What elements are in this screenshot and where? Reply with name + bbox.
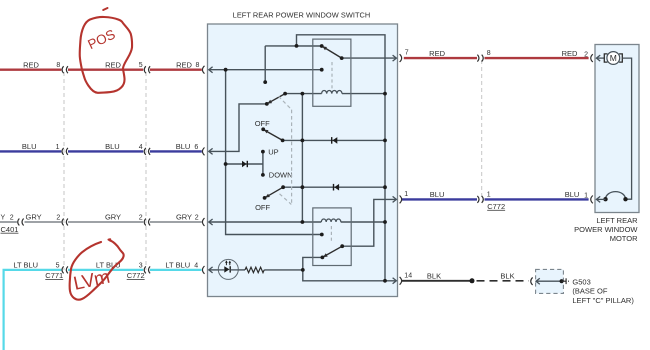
annotation LVM circle: [70, 240, 124, 299]
motor brush dots: [603, 197, 607, 201]
svg-text:4: 4: [194, 262, 198, 269]
relay K1 switch arm: [322, 46, 341, 58]
pin 2 glyph at motor box: [591, 54, 600, 62]
wire BLU right labels: [404, 190, 588, 199]
svg-text:BLU: BLU: [22, 142, 37, 151]
svg-text:LEFT REAR: LEFT REAR: [596, 216, 638, 225]
junction node bus B/diode D2: [301, 185, 305, 189]
UP contact dot: [261, 150, 265, 154]
svg-text:BLU: BLU: [176, 142, 191, 151]
connector arcs RED at C772: [144, 66, 150, 73]
svg-text:RED: RED: [105, 60, 121, 69]
svg-text:C771: C771: [45, 271, 63, 280]
svg-text:MOTOR: MOTOR: [610, 234, 638, 243]
wire pin6 internal elbow: [209, 104, 267, 151]
connector arcs LT BLU at C771: [62, 266, 68, 273]
pin 1 glyph at switch box right: [393, 196, 402, 204]
wire BLU right segment 1: [402, 198, 477, 200]
connector arcs LT BLU at C772: [144, 266, 150, 273]
svg-text:2: 2: [10, 215, 14, 222]
G503 internal wire: [536, 280, 562, 282]
junction node bus B/coil K1: [301, 92, 305, 96]
wire pin8 internal: [209, 69, 322, 71]
junction node bus B/coil K2: [301, 220, 305, 224]
wire node to pin 14: [303, 270, 397, 281]
junction node bus A/diode D0: [224, 162, 228, 166]
switch OFF1 dots: [261, 127, 265, 131]
resistor R1: [245, 267, 264, 272]
G503 splice dot: [560, 279, 564, 283]
upper contact stub dot: [263, 80, 267, 84]
wire BLU segment 3: [150, 150, 202, 152]
wire pin2 internal / coil K2 row: [209, 221, 321, 223]
relay K1 coil: [322, 90, 342, 93]
wire LT BLU segment 3: [150, 269, 202, 271]
switch OFF2 dots: [263, 196, 267, 200]
svg-text:C772: C772: [127, 271, 145, 280]
svg-text:BLU: BLU: [430, 190, 445, 199]
wire GRY labels: [1, 213, 199, 222]
svg-text:14: 14: [404, 273, 412, 280]
annotation POS circle: [80, 17, 132, 93]
motor M1 symbol: [596, 52, 631, 200]
svg-text:OFF: OFF: [255, 203, 270, 212]
connector C772 dashed line (left): [145, 72, 147, 270]
wire BLU segment 2: [68, 150, 143, 152]
wire OFF2 pivot row: [283, 186, 302, 188]
pin 2 glyph at switch box left: [202, 218, 212, 226]
wire RED labels left: [23, 60, 199, 69]
wire BLU segment 1: [0, 150, 61, 152]
wire upper contact stub: [264, 46, 266, 82]
wire GRY segment 2: [68, 221, 143, 223]
switch arm upper dots: [265, 102, 269, 106]
wire GRY segment 3: [150, 221, 202, 223]
svg-text:BLU: BLU: [565, 190, 580, 199]
wire top elbow and right bus: [297, 35, 386, 281]
pin 6 glyph at switch box left: [202, 148, 212, 156]
connector arcs BLU at C771: [62, 148, 68, 155]
wire diode D0 row: [226, 163, 263, 165]
pin 8 glyph at switch box left: [202, 66, 212, 74]
svg-text:8: 8: [56, 62, 60, 69]
connector arcs GRY at C772: [144, 219, 150, 226]
wire RED segment 2: [68, 68, 143, 70]
svg-text:RED: RED: [176, 60, 192, 69]
svg-text:2: 2: [139, 215, 143, 222]
wire relay K1 common to pin 7: [342, 57, 397, 59]
relay K1 contact dots: [320, 44, 324, 48]
wire node row y46: [265, 45, 322, 47]
connector arcs BLU at C772: [144, 148, 150, 155]
svg-text:BLU: BLU: [105, 142, 120, 151]
svg-text:1: 1: [584, 192, 588, 199]
svg-text:POS: POS: [85, 27, 117, 53]
svg-text:8: 8: [195, 62, 199, 69]
wire LED row left: [209, 269, 219, 271]
svg-text:DOWN: DOWN: [269, 171, 293, 180]
wire UP DOWN stub: [262, 152, 264, 175]
svg-text:LT BLU: LT BLU: [13, 261, 38, 270]
wire BLK dashed segment: [477, 280, 529, 282]
svg-text:LEFT REAR POWER WINDOW SWITCH: LEFT REAR POWER WINDOW SWITCH: [233, 10, 371, 19]
junction node pin8/bus A: [224, 68, 228, 72]
wire BLU labels left: [22, 142, 198, 151]
wire RED right segment 2: [485, 57, 589, 59]
motor brush arc: [606, 192, 626, 200]
junction node bus C/diode D2: [383, 185, 387, 189]
wire node to K2 lower contact: [303, 257, 323, 270]
wire BLK labels: [404, 272, 514, 281]
wire GRY segment 1: [25, 221, 62, 223]
junction node bus B/diode D1: [301, 139, 305, 143]
wire diode D2 row: [302, 186, 385, 188]
relay K1 box: [313, 39, 351, 106]
svg-text:(BASE OF: (BASE OF: [572, 287, 607, 296]
connector arcs GRY at C401: [18, 219, 24, 226]
wire LT BLU labels: [13, 261, 198, 270]
wire resistor to node: [264, 269, 303, 271]
motor brush wire to pin 1: [596, 198, 605, 200]
wire RED right segment 1: [404, 57, 477, 59]
wire BLU right segment 2: [485, 198, 589, 200]
annotation LVM tick: [109, 238, 111, 240]
diode D1: [332, 137, 338, 144]
wire RED segment 3: [150, 68, 202, 70]
wire RED segment 1: [0, 68, 61, 70]
svg-text:Y: Y: [1, 215, 6, 222]
svg-text:GRY: GRY: [105, 213, 121, 222]
connector C771 dashed line: [63, 72, 65, 270]
wire relay K2 common to pin 1: [342, 199, 396, 246]
wire OFF1 pivot row: [283, 139, 303, 141]
svg-text:C401: C401: [1, 225, 19, 234]
wire RED right labels: [405, 49, 588, 59]
DOWN contact dot: [261, 173, 265, 177]
svg-text:BLK: BLK: [427, 272, 441, 281]
relay K2 contact dots: [320, 233, 324, 237]
G503 stub and tick: [562, 278, 569, 284]
svg-text:LT BLU: LT BLU: [165, 261, 190, 270]
relay K2 box: [313, 208, 351, 266]
relay K2 switch arm: [323, 246, 342, 257]
connector arcs RED at C771: [62, 66, 68, 73]
motor box M1 body: [595, 45, 639, 213]
svg-text:GRY: GRY: [26, 213, 42, 222]
relay K1 armature dashed link: [331, 62, 333, 90]
connector arcs GRY at C771: [62, 219, 68, 226]
svg-text:OFF: OFF: [255, 119, 270, 128]
svg-text:G503: G503: [572, 277, 590, 286]
wire vertical from pin8 node to relay K2 contact: [226, 70, 322, 235]
ground splice G503 box: [536, 269, 564, 293]
svg-text:RED: RED: [429, 49, 445, 58]
pin 4 glyph at switch box left: [202, 266, 212, 274]
relay K2 armature dashed link: [330, 226, 332, 243]
motor box caption: [574, 216, 638, 243]
wire pivot to node B: [285, 93, 302, 95]
svg-text:5: 5: [56, 262, 60, 269]
svg-text:6: 6: [194, 144, 198, 151]
svg-text:2: 2: [195, 215, 199, 222]
wire LED to resistor: [238, 269, 245, 271]
connector arcs RED right at C772: [477, 55, 483, 62]
relay K2 coil: [321, 219, 341, 222]
annotation POS tick: [103, 8, 107, 10]
svg-text:2: 2: [584, 51, 588, 58]
junction node bus C/coil K2: [383, 220, 387, 224]
svg-text:C772: C772: [487, 202, 505, 211]
wire coil K1 row: [302, 93, 321, 95]
LED indicator: [218, 259, 238, 279]
svg-text:1: 1: [56, 144, 60, 151]
svg-text:BLK: BLK: [500, 272, 514, 281]
connector arcs BLU right at C772: [477, 196, 483, 203]
svg-text:1: 1: [487, 191, 491, 198]
junction node bus C/coil K1: [383, 92, 387, 96]
svg-text:GRY: GRY: [176, 213, 192, 222]
G503 caption: [572, 277, 634, 305]
svg-text:7: 7: [405, 50, 409, 57]
switch box U1 body: [208, 24, 398, 297]
wire LT BLU segment 2: [68, 269, 143, 271]
switch OFF1 arm: [264, 130, 283, 141]
splice dot on BLK wire: [470, 278, 475, 283]
switch OFF2 arm: [265, 187, 283, 197]
svg-text:5: 5: [139, 62, 143, 69]
svg-text:RED: RED: [562, 49, 578, 58]
svg-text:POWER WINDOW: POWER WINDOW: [574, 225, 638, 234]
wire GRY segment 0 (from C401): [0, 221, 17, 223]
pin 7 glyph at switch box right: [393, 54, 402, 62]
connector C772 dashed line (right): [481, 60, 483, 199]
wire diode D1 row: [302, 139, 385, 141]
diode D2: [334, 184, 340, 191]
wire vertical bus B: [301, 94, 303, 222]
G503 entry glyph: [531, 277, 540, 285]
svg-text:RED: RED: [23, 60, 39, 69]
pin 14 glyph at switch box right: [393, 277, 402, 285]
junction node bus C/diode D1: [383, 139, 387, 143]
svg-text:8: 8: [487, 50, 491, 57]
svg-text:LVm: LVm: [72, 267, 112, 295]
svg-text:4: 4: [139, 144, 143, 151]
svg-text:2: 2: [56, 215, 60, 222]
junction node bus C/pin14: [383, 279, 387, 283]
pin 1 glyph at motor box: [591, 196, 600, 204]
svg-text:UP: UP: [268, 148, 278, 157]
junction node top feed: [295, 44, 299, 48]
svg-text:3: 3: [139, 262, 143, 269]
svg-text:M: M: [610, 53, 617, 63]
mechanical dashed link: [279, 96, 292, 204]
diode D0 (UP/DOWN feed): [242, 161, 247, 167]
switch arm upper (window switch): [267, 94, 285, 104]
svg-text:LEFT "C" PILLAR): LEFT "C" PILLAR): [572, 296, 634, 305]
junction node LED/lamp branch: [301, 268, 305, 272]
svg-text:1: 1: [404, 191, 408, 198]
wire BLK solid segment: [402, 280, 472, 282]
wire LT BLU riser at left edge: [4, 270, 62, 350]
